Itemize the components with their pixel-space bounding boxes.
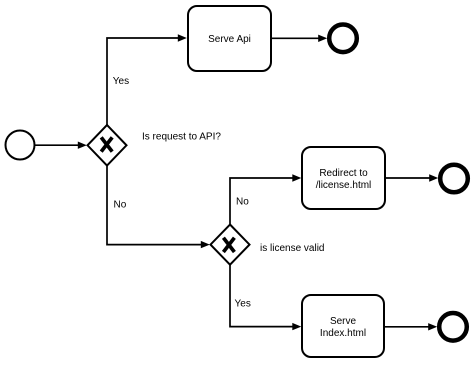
svg-text:Serve: Serve <box>330 316 357 327</box>
svg-text:Yes: Yes <box>113 76 129 87</box>
svg-text:No: No <box>114 200 127 211</box>
svg-text:No: No <box>236 197 249 208</box>
svg-text:/license.html: /license.html <box>316 180 372 191</box>
svg-text:Is request to API?: Is request to API? <box>142 132 221 143</box>
svg-text:is license valid: is license valid <box>260 243 324 254</box>
svg-text:Index.html: Index.html <box>320 328 366 339</box>
svg-text:Redirect to: Redirect to <box>319 168 368 179</box>
svg-text:Serve Api: Serve Api <box>208 34 251 45</box>
svg-text:Yes: Yes <box>235 299 251 310</box>
